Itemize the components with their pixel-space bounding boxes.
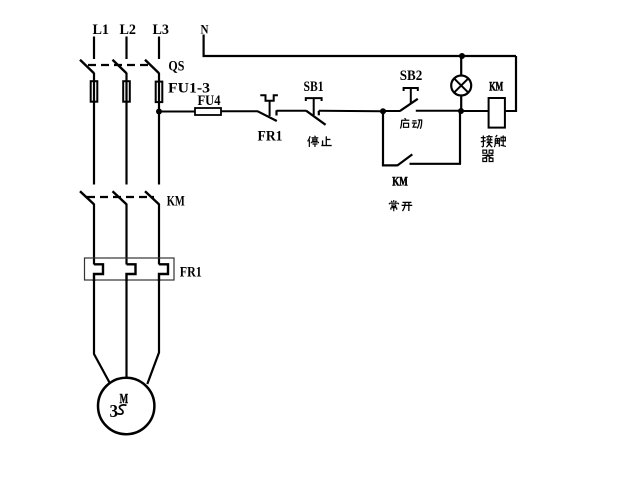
lamp HL (indicator) <box>451 76 471 96</box>
wire SB1 to node B <box>319 110 384 112</box>
wire lamp to node C <box>460 96 462 112</box>
SB1 actuator T-bar <box>306 98 322 101</box>
label 启动 (start) <box>400 118 421 129</box>
wire coil to right riser <box>505 110 516 112</box>
svg-text:L2: L2 <box>120 22 137 38</box>
svg-text:L1: L1 <box>93 22 110 38</box>
wire FU4 to FR1 contact <box>221 110 258 112</box>
FR1 contact fixed tick <box>275 110 277 115</box>
FR1 heater element 3 <box>159 264 168 281</box>
SB1 fixed tick <box>318 111 320 116</box>
motor M circle <box>98 378 154 434</box>
label 停止 (stop) <box>308 136 332 147</box>
label 接触器 (contactor) <box>481 135 506 161</box>
FR1 heater element 2 <box>127 264 136 281</box>
svg-text:FU4: FU4 <box>198 93 221 109</box>
wire N drop <box>203 35 205 57</box>
svg-text:KM: KM <box>167 194 185 210</box>
wire L1 FU1 to KM <box>93 103 95 185</box>
wire L3 FR1 to motor <box>147 280 159 384</box>
pushbutton SB2 blade (start, NO) <box>400 99 418 111</box>
wire L1 KM to FR1 heater <box>93 204 95 265</box>
wire L1 incoming <box>93 37 95 60</box>
svg-text:SB2: SB2 <box>400 68 423 84</box>
wire L1 FR1 to motor <box>94 280 110 383</box>
FR1 trip actuator (notch) <box>260 95 278 101</box>
wire L1 QS to FU1 <box>93 73 95 81</box>
wire L3 FU3 to KM <box>158 104 160 185</box>
wire L3 KM to FR1 heater <box>158 204 160 265</box>
svg-text:QS: QS <box>168 59 184 75</box>
wire L2 FR1 to motor <box>125 280 127 378</box>
svg-text:N: N <box>201 22 210 37</box>
node C (lamp/coil tap) <box>458 108 464 114</box>
SB1 actuator stem <box>313 98 315 115</box>
contactor KM pole 1 contact <box>80 191 94 204</box>
pushbutton SB1 blade (stop, NC) <box>306 111 325 125</box>
fuse FU4 <box>195 108 221 115</box>
switch QS pole 2 blade <box>113 60 127 73</box>
svg-text:KM: KM <box>489 79 503 94</box>
node D (N bus tap) <box>459 53 465 59</box>
thermal relay FR1 heater box <box>85 258 175 280</box>
wire L3 QS to FU3 <box>158 73 160 81</box>
FR1 actuator stem <box>269 101 271 116</box>
fuse FU1 <box>91 81 98 104</box>
wire L2 FU2 to KM <box>125 103 127 185</box>
fuse FU3 <box>156 81 163 104</box>
switch QS pole 1 blade <box>80 60 94 73</box>
node B (SB2/KM-aux tap) <box>380 108 386 114</box>
KM linkage (dashed) <box>87 196 154 198</box>
label ~ (motor ac symbol) <box>117 405 126 414</box>
wire L2 incoming <box>125 37 127 60</box>
wire SB2 to node C <box>416 110 461 112</box>
wire L2 QS to FU2 <box>125 73 127 81</box>
KM aux branch left drop <box>382 111 384 166</box>
coil KM (contactor coil) <box>489 98 505 128</box>
switch QS pole 3 blade <box>145 60 159 73</box>
svg-text:FR1: FR1 <box>180 265 202 281</box>
KM auxiliary contact blade (NO) <box>398 154 413 165</box>
wire L2 KM to FR1 heater <box>125 204 127 265</box>
svg-text:SB1: SB1 <box>304 79 324 95</box>
svg-text:L3: L3 <box>153 22 170 38</box>
thermal relay FR1 NC contact blade <box>258 111 277 121</box>
wire node D to lamp <box>460 56 462 76</box>
label 常开 (normally open) <box>389 200 412 211</box>
FR1 heater element 1 <box>94 264 103 281</box>
KM aux branch bottom-left wire <box>382 164 398 166</box>
SB2 actuator T-bar <box>404 88 418 91</box>
QS linkage (dashed) <box>88 64 150 66</box>
svg-text:FR1: FR1 <box>258 129 283 145</box>
svg-text:3: 3 <box>110 401 119 421</box>
fuse FU2 <box>123 81 130 104</box>
SB2 actuator stem <box>410 88 412 104</box>
wire FR1 to SB1 <box>277 110 307 112</box>
contactor KM pole 2 contact <box>113 191 127 204</box>
KM aux branch right riser <box>459 111 461 164</box>
contactor KM pole 3 contact <box>145 191 159 204</box>
node A (tap to FU4 on L3) <box>156 109 162 115</box>
KM aux branch bottom-right wire <box>410 163 462 165</box>
wire node C to coil KM <box>461 110 489 112</box>
svg-text:KM: KM <box>392 174 408 189</box>
wire node A to FU4 <box>159 111 196 113</box>
wire N bus (top horizontal) <box>203 55 517 57</box>
wire L3 incoming <box>158 37 160 60</box>
wire node B to SB2 <box>383 110 401 112</box>
wire right riser to N bus <box>515 56 517 112</box>
